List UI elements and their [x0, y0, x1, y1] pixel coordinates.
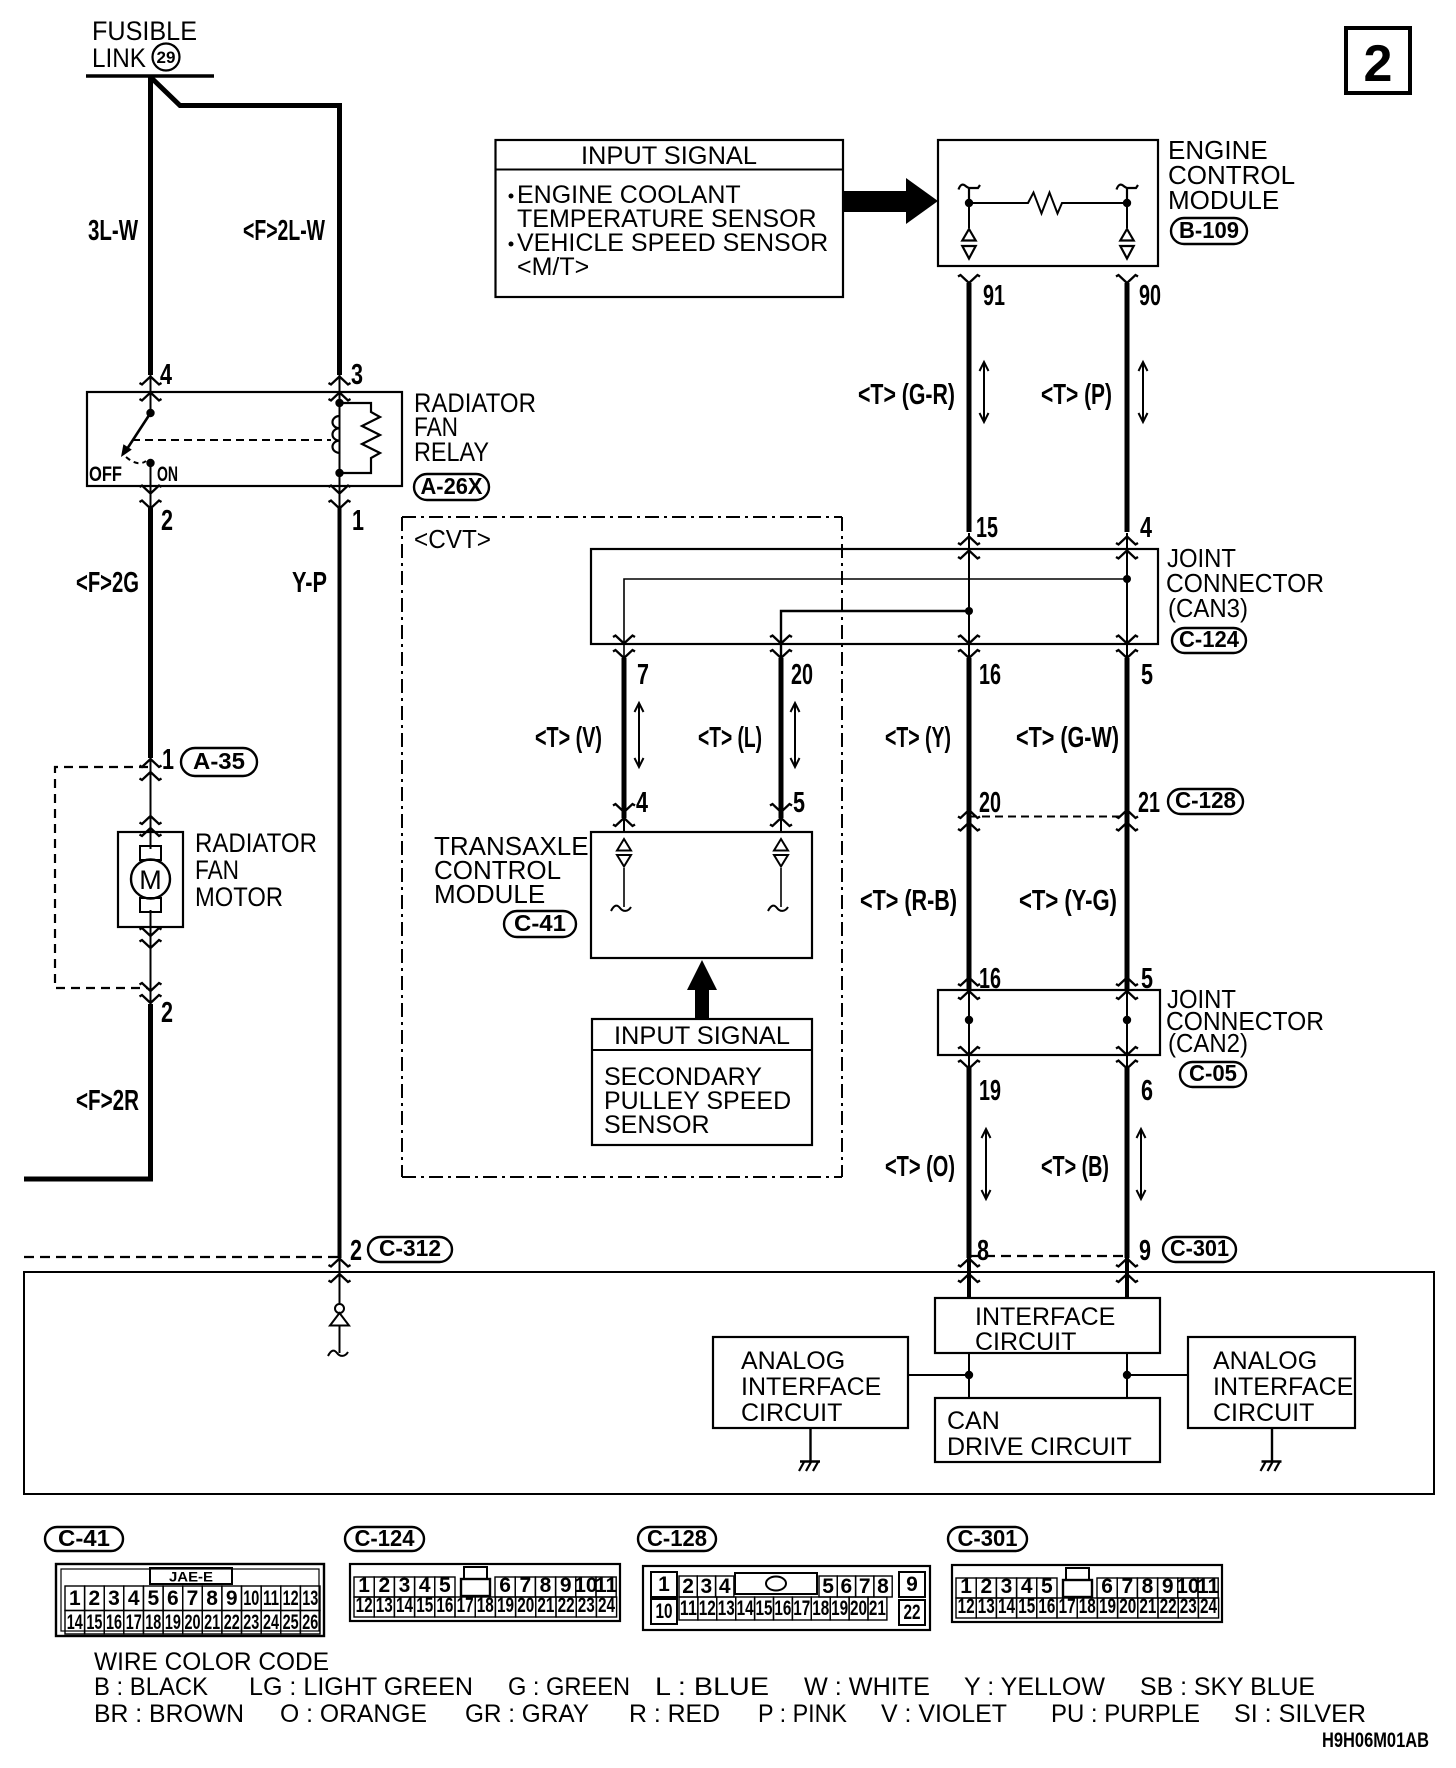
svg-text:8: 8	[877, 1575, 889, 1598]
connector id A-35	[181, 748, 257, 776]
svg-text:4: 4	[160, 359, 172, 391]
CAN3 bottom forks pin 5	[1116, 636, 1138, 644]
CAN3 bottom forks pin 7	[613, 636, 635, 644]
wire A-35 to motor	[150, 758, 152, 832]
svg-text:<T> (B): <T> (B)	[1041, 1151, 1109, 1183]
connector id C-05	[1180, 1060, 1246, 1087]
svg-text:2: 2	[161, 997, 173, 1029]
svg-text:CIRCUIT: CIRCUIT	[975, 1328, 1076, 1356]
svg-text:18: 18	[1079, 1595, 1096, 1618]
svg-text:19: 19	[1099, 1595, 1116, 1618]
CAN2 top forks left	[958, 978, 980, 986]
svg-text:INTERFACE: INTERFACE	[741, 1373, 881, 1401]
connector A-35 pin 1 forks	[140, 759, 162, 767]
svg-text:INPUT SIGNAL: INPUT SIGNAL	[581, 142, 757, 170]
connector id C-128 bottom	[638, 1525, 716, 1551]
connector id C-128	[1168, 787, 1243, 814]
svg-text:SB : SKY BLUE: SB : SKY BLUE	[1140, 1673, 1315, 1701]
svg-text:<T> (P): <T> (P)	[1041, 379, 1112, 411]
svg-text:20: 20	[185, 1611, 201, 1634]
C-301 forks wire 8	[958, 1259, 980, 1267]
connector id C-41 bottom	[45, 1525, 123, 1551]
svg-text:19: 19	[165, 1611, 181, 1634]
svg-text:11: 11	[263, 1587, 279, 1610]
svg-text:11: 11	[680, 1597, 697, 1620]
motor connector forks bottom	[140, 928, 162, 936]
svg-text:24: 24	[598, 1594, 615, 1617]
svg-text:17: 17	[126, 1611, 142, 1634]
svg-text:10: 10	[656, 1600, 673, 1623]
CAN3 internal wire 4-5	[1126, 533, 1128, 657]
svg-text:12: 12	[356, 1594, 373, 1617]
wire branch to 2L-W	[151, 78, 340, 376]
svg-text:22: 22	[1160, 1595, 1177, 1618]
C-301 dashed connector line	[969, 1255, 1127, 1257]
svg-text:(CAN3): (CAN3)	[1168, 593, 1248, 623]
svg-text:<T> (R-B): <T> (R-B)	[860, 885, 957, 917]
svg-text:16: 16	[1038, 1595, 1055, 1618]
can drive circuit box	[935, 1398, 1160, 1462]
connector id C-301 bottom	[948, 1525, 1027, 1551]
svg-text:JAE-E: JAE-E	[169, 1569, 213, 1585]
relay label	[414, 388, 536, 467]
motor internal wire bottom	[150, 910, 152, 927]
svg-text:MODULE: MODULE	[434, 879, 545, 909]
connector forks pin 4	[140, 377, 162, 385]
CAN2 bottom forks right	[1116, 1047, 1138, 1055]
CAN3 internal wire 15-16	[968, 533, 970, 657]
arrow input signal 2 to TCM	[687, 960, 717, 1019]
svg-text:18: 18	[812, 1597, 829, 1620]
CVT dash-dot boundary	[402, 517, 842, 1177]
svg-text:12: 12	[958, 1595, 975, 1618]
connector id C-312	[368, 1235, 452, 1262]
joint connector CAN2 box C-05	[938, 990, 1160, 1055]
connector C-128 pinout	[643, 1566, 930, 1630]
svg-text:18: 18	[477, 1594, 494, 1617]
svg-text:G : GREEN: G : GREEN	[508, 1673, 630, 1701]
CAN3 label	[1166, 543, 1324, 623]
svg-text:M: M	[139, 865, 162, 895]
motor brush top	[140, 846, 161, 860]
svg-text:21: 21	[537, 1594, 554, 1617]
svg-text:6: 6	[1141, 1075, 1153, 1107]
svg-text:2: 2	[1364, 35, 1393, 93]
motor brush bottom	[140, 898, 161, 912]
svg-text:A-35: A-35	[193, 748, 245, 774]
svg-text:23: 23	[243, 1611, 259, 1634]
CAN2 internal wire left	[965, 978, 973, 1068]
svg-text:FUSIBLE: FUSIBLE	[92, 16, 197, 46]
svg-text:26: 26	[302, 1611, 318, 1634]
svg-text:23: 23	[1180, 1595, 1197, 1618]
motor internal wire top	[150, 832, 152, 849]
svg-text:GR : GRAY: GR : GRAY	[465, 1700, 589, 1728]
svg-text:21: 21	[1138, 787, 1160, 819]
wire T G-R	[967, 283, 972, 532]
svg-text:LG : LIGHT GREEN: LG : LIGHT GREEN	[249, 1673, 473, 1701]
Y-P termination inside module	[328, 1258, 349, 1356]
svg-text:2: 2	[161, 505, 173, 537]
svg-text:<CVT>: <CVT>	[414, 524, 491, 554]
twisted arrow B	[1137, 1129, 1146, 1199]
C-128 forks wire Y	[958, 810, 980, 818]
svg-text:INTERFACE: INTERFACE	[975, 1303, 1115, 1331]
wire analog left junction	[908, 1371, 973, 1379]
connector forks pin 2	[140, 486, 162, 494]
CAN3 forks pin 4	[1116, 537, 1138, 545]
transaxle control module C-41 box	[591, 832, 812, 958]
svg-text:A-26X: A-26X	[421, 473, 484, 499]
C-41 forks pin 4	[613, 804, 635, 812]
svg-text:4: 4	[128, 1587, 140, 1610]
svg-text:(CAN2): (CAN2)	[1168, 1028, 1248, 1058]
svg-text:MODULE: MODULE	[1168, 185, 1279, 215]
svg-text:C-128: C-128	[1175, 787, 1236, 813]
svg-text:ANALOG: ANALOG	[741, 1347, 845, 1375]
connector id C-124	[1172, 626, 1246, 653]
svg-text:13: 13	[978, 1595, 995, 1618]
svg-text:19: 19	[979, 1075, 1001, 1107]
svg-text:17: 17	[1059, 1595, 1076, 1618]
motor circle M	[131, 860, 170, 899]
input signal box (TCM)	[592, 1019, 812, 1145]
C-128 forks wire G-W	[1116, 810, 1138, 818]
relay pin 1 stub	[339, 486, 341, 509]
CAN2 top forks right	[1116, 978, 1138, 986]
wire T O	[967, 1068, 972, 1258]
svg-text:C-05: C-05	[1189, 1060, 1237, 1086]
analog interface circuit box left	[713, 1337, 908, 1428]
svg-text:<M/T>: <M/T>	[517, 253, 589, 281]
svg-text:22: 22	[558, 1594, 575, 1617]
svg-text:23: 23	[578, 1594, 595, 1617]
svg-text:20: 20	[1119, 1595, 1136, 1618]
svg-text:19: 19	[497, 1594, 514, 1617]
C-41 forks pin 5	[770, 804, 792, 812]
twisted arrow O	[982, 1129, 991, 1199]
motor label	[195, 828, 317, 912]
svg-text:CIRCUIT: CIRCUIT	[741, 1399, 842, 1427]
wire 3L-W vertical	[148, 76, 153, 375]
wire 9 into module	[1125, 1258, 1129, 1298]
svg-text:<T> (Y): <T> (Y)	[885, 722, 951, 754]
svg-text:16: 16	[436, 1594, 453, 1617]
wire F 2G	[148, 508, 153, 758]
fusible link bus line	[86, 74, 214, 78]
svg-text:5: 5	[822, 1575, 834, 1598]
svg-text:ON: ON	[157, 463, 178, 486]
svg-text:25: 25	[283, 1611, 299, 1634]
svg-text:3: 3	[108, 1587, 120, 1610]
svg-text:WIRE COLOR CODE: WIRE COLOR CODE	[94, 1648, 329, 1676]
radiator fan relay A-26X box	[87, 392, 402, 486]
ECM label	[1168, 135, 1295, 215]
connector id B-109	[1171, 217, 1247, 244]
svg-text:1: 1	[352, 505, 364, 537]
relay switch wire stub pin4	[150, 375, 152, 413]
svg-text:LINK: LINK	[92, 43, 146, 73]
svg-text:8: 8	[977, 1235, 989, 1267]
svg-text:9: 9	[226, 1587, 238, 1610]
svg-text:B : BLACK: B : BLACK	[94, 1673, 208, 1701]
svg-text:B-109: B-109	[1179, 217, 1239, 243]
svg-text:<F>2G: <F>2G	[76, 567, 139, 599]
svg-text:<F>2L-W: <F>2L-W	[243, 215, 325, 247]
connector C-301 pinout	[952, 1565, 1222, 1622]
wire interface to can drive left	[968, 1353, 970, 1398]
TCM pin 4 stub	[623, 818, 625, 832]
C-128 dashed connector line	[969, 816, 1127, 818]
svg-text:CAN: CAN	[947, 1407, 1000, 1435]
svg-text:90: 90	[1139, 280, 1161, 312]
svg-text:6: 6	[167, 1587, 179, 1610]
connector id A-26X	[414, 473, 489, 500]
svg-text:<T> (L): <T> (L)	[698, 722, 762, 754]
svg-text:C-41: C-41	[514, 910, 566, 936]
svg-text:7: 7	[187, 1587, 199, 1610]
svg-text:FAN: FAN	[195, 855, 239, 885]
CAN3 bottom forks pin 20	[770, 636, 792, 644]
svg-text:17: 17	[793, 1597, 810, 1620]
svg-text:8: 8	[206, 1587, 218, 1610]
svg-text:<T> (O): <T> (O)	[885, 1151, 955, 1183]
svg-text:4: 4	[719, 1575, 731, 1598]
svg-text:20: 20	[791, 659, 813, 691]
radiator fan motor box	[118, 832, 183, 927]
wire T L	[779, 658, 784, 818]
engine control module B-109 box	[938, 140, 1158, 266]
svg-text:21: 21	[869, 1597, 886, 1620]
svg-text:12: 12	[283, 1587, 299, 1610]
svg-text:12: 12	[699, 1597, 716, 1620]
ECM pin 91 fork	[958, 275, 980, 283]
svg-text:<T> (V): <T> (V)	[535, 722, 602, 754]
svg-text:1: 1	[69, 1587, 81, 1610]
svg-text:22: 22	[224, 1611, 240, 1634]
svg-text:21: 21	[1139, 1595, 1156, 1618]
svg-text:6: 6	[841, 1575, 853, 1598]
svg-text:17: 17	[457, 1594, 474, 1617]
svg-text:5: 5	[147, 1587, 159, 1610]
svg-text:9: 9	[906, 1573, 918, 1596]
svg-text:CIRCUIT: CIRCUIT	[1213, 1399, 1314, 1427]
ECM internal circuit	[959, 185, 1139, 259]
svg-text:<F>2R: <F>2R	[76, 1085, 139, 1117]
svg-text:1: 1	[658, 1573, 670, 1596]
connector id C-124 bottom	[345, 1525, 424, 1551]
input signal box (ECM)	[496, 140, 844, 297]
svg-text:RADIATOR: RADIATOR	[195, 828, 317, 858]
svg-text:INTERFACE: INTERFACE	[1213, 1373, 1353, 1401]
svg-text:5: 5	[1141, 659, 1153, 691]
svg-text:14: 14	[67, 1611, 83, 1634]
connector id C-301	[1163, 1235, 1236, 1262]
svg-text:ANALOG: ANALOG	[1213, 1347, 1317, 1375]
wire T P	[1125, 283, 1130, 532]
svg-text:SENSOR: SENSOR	[604, 1111, 710, 1139]
svg-text:15: 15	[976, 512, 998, 544]
CAN3 bus high	[624, 575, 1131, 657]
page number 2 box	[1346, 28, 1410, 93]
motor connector forks top	[140, 816, 162, 824]
wire Y-P	[338, 508, 342, 1258]
TCM internal terminal right	[768, 839, 788, 911]
wire motor to A-35 pin 2	[150, 927, 152, 1004]
CAN2 label	[1166, 984, 1324, 1058]
svg-text:13: 13	[376, 1594, 393, 1617]
svg-text:RELAY: RELAY	[414, 437, 489, 467]
svg-text:DRIVE CIRCUIT: DRIVE CIRCUIT	[947, 1433, 1132, 1461]
svg-text:W : WHITE: W : WHITE	[804, 1673, 930, 1701]
wire T Y	[967, 658, 972, 990]
svg-text:91: 91	[983, 280, 1005, 312]
svg-text:C-301: C-301	[1170, 1235, 1229, 1261]
svg-text:C-312: C-312	[379, 1235, 441, 1261]
CAN3 bottom forks pin 16	[958, 636, 980, 644]
connector C-124 pinout	[350, 1564, 620, 1621]
svg-text:Y-P: Y-P	[292, 567, 327, 599]
twisted arrow G-R	[980, 362, 989, 422]
svg-text:7: 7	[859, 1575, 871, 1598]
svg-text:<T> (G-W): <T> (G-W)	[1016, 722, 1119, 754]
svg-text:Y : YELLOW: Y : YELLOW	[964, 1673, 1105, 1701]
svg-text:P : PINK: P : PINK	[758, 1700, 847, 1728]
svg-text:18: 18	[145, 1611, 161, 1634]
svg-text:13: 13	[718, 1597, 735, 1620]
interface circuit box	[935, 1298, 1160, 1356]
svg-text:20: 20	[850, 1597, 867, 1620]
wire analog right junction	[1123, 1371, 1188, 1379]
svg-text:C-124: C-124	[1179, 626, 1239, 652]
svg-text:SI : SILVER: SI : SILVER	[1234, 1700, 1366, 1728]
svg-text:13: 13	[302, 1587, 318, 1610]
svg-text:INPUT SIGNAL: INPUT SIGNAL	[614, 1022, 790, 1050]
C-301 forks wire 9	[1116, 1259, 1138, 1267]
module boundary box	[24, 1272, 1434, 1494]
svg-text:5: 5	[793, 787, 805, 819]
svg-text:15: 15	[756, 1597, 773, 1620]
svg-text:L : BLUE: L : BLUE	[655, 1673, 769, 1701]
svg-text:2: 2	[89, 1587, 101, 1610]
wire color code legend	[94, 1648, 1366, 1728]
svg-text:24: 24	[263, 1611, 279, 1634]
svg-text:2: 2	[682, 1575, 694, 1598]
wire F 2R	[24, 1004, 151, 1179]
TCM internal terminal left	[611, 839, 631, 911]
svg-text:24: 24	[1200, 1595, 1217, 1618]
connector forks pin 1	[329, 486, 351, 494]
svg-text:15: 15	[86, 1611, 102, 1634]
relay coil	[332, 375, 343, 486]
svg-text:C-301: C-301	[958, 1525, 1018, 1551]
svg-text:15: 15	[1018, 1595, 1035, 1618]
wire T V	[622, 658, 627, 818]
svg-text:V : VIOLET: V : VIOLET	[881, 1700, 1007, 1728]
svg-text:3: 3	[701, 1575, 713, 1598]
svg-text:10: 10	[243, 1587, 259, 1610]
ground left analog	[799, 1428, 820, 1471]
svg-text:H9H06M01AB: H9H06M01AB	[1322, 1729, 1429, 1752]
svg-text:16: 16	[979, 659, 1001, 691]
svg-text:R : RED: R : RED	[629, 1700, 720, 1728]
C-312 forks on Y-P wire	[329, 1259, 351, 1267]
svg-text:MOTOR: MOTOR	[195, 882, 283, 912]
svg-text:C-128: C-128	[647, 1525, 707, 1551]
fusible link 29 label	[92, 16, 197, 73]
svg-text:OFF: OFF	[89, 463, 122, 486]
svg-text:3: 3	[351, 359, 363, 391]
svg-text:C-124: C-124	[355, 1525, 415, 1551]
CAN2 internal wire right	[1123, 978, 1131, 1068]
svg-text:15: 15	[416, 1594, 433, 1617]
svg-text:7: 7	[637, 659, 649, 691]
connector forks pin 3	[329, 377, 351, 385]
CAN3 bus low	[781, 607, 973, 657]
svg-text:O : ORANGE: O : ORANGE	[280, 1700, 427, 1728]
svg-text:4: 4	[636, 787, 648, 819]
svg-text:14: 14	[396, 1594, 413, 1617]
connector A-35 pin 2 forks	[140, 983, 162, 991]
CAN2 bottom forks left	[958, 1047, 980, 1055]
svg-text:<T> (Y-G): <T> (Y-G)	[1019, 885, 1117, 917]
wire T B	[1125, 1068, 1130, 1258]
svg-text:4: 4	[1140, 512, 1152, 544]
TCM pin 5 stub	[780, 818, 782, 832]
motor assembly dashed box	[55, 767, 148, 988]
svg-text:PU : PURPLE: PU : PURPLE	[1051, 1700, 1200, 1728]
twisted arrow L	[791, 703, 800, 767]
wire T G-W	[1125, 658, 1130, 990]
svg-text:29: 29	[157, 48, 176, 67]
relay pin 2 stub	[150, 486, 152, 509]
relay actuation dashed line	[132, 439, 331, 441]
svg-text:20: 20	[979, 787, 1001, 819]
analog interface circuit box right	[1188, 1337, 1355, 1428]
wire interface to can drive right	[1126, 1353, 1128, 1398]
twisted arrow V	[635, 703, 644, 767]
svg-text:3L-W: 3L-W	[88, 215, 138, 247]
twisted arrow P	[1139, 362, 1148, 422]
C-312 dashed connector line	[24, 1256, 339, 1258]
CAN3 forks pin 15	[958, 537, 980, 545]
svg-text:14: 14	[998, 1595, 1015, 1618]
connector id C-41	[504, 910, 576, 937]
svg-text:14: 14	[737, 1597, 754, 1620]
svg-text:21: 21	[204, 1611, 220, 1634]
ECM pin 90 fork	[1116, 275, 1138, 283]
arrow input signal to ECM	[843, 178, 938, 224]
svg-text:16: 16	[774, 1597, 791, 1620]
connector C-41 pinout	[56, 1564, 324, 1636]
svg-text:20: 20	[517, 1594, 534, 1617]
joint connector CAN3 box C-124	[591, 549, 1158, 644]
svg-text:2: 2	[350, 1235, 362, 1267]
svg-text:16: 16	[106, 1611, 122, 1634]
ground right analog	[1261, 1428, 1282, 1471]
relay resistor	[340, 403, 381, 473]
svg-text:C-41: C-41	[58, 1525, 110, 1551]
svg-text:22: 22	[904, 1601, 921, 1624]
TCM label	[434, 831, 589, 909]
wire 8 into module	[967, 1258, 971, 1298]
svg-text:BR : BROWN: BR : BROWN	[94, 1700, 244, 1728]
svg-text:<T> (G-R): <T> (G-R)	[858, 379, 955, 411]
svg-text:1: 1	[162, 744, 174, 776]
svg-text:9: 9	[1139, 1235, 1151, 1267]
relay switch	[121, 409, 155, 486]
svg-text:19: 19	[831, 1597, 848, 1620]
